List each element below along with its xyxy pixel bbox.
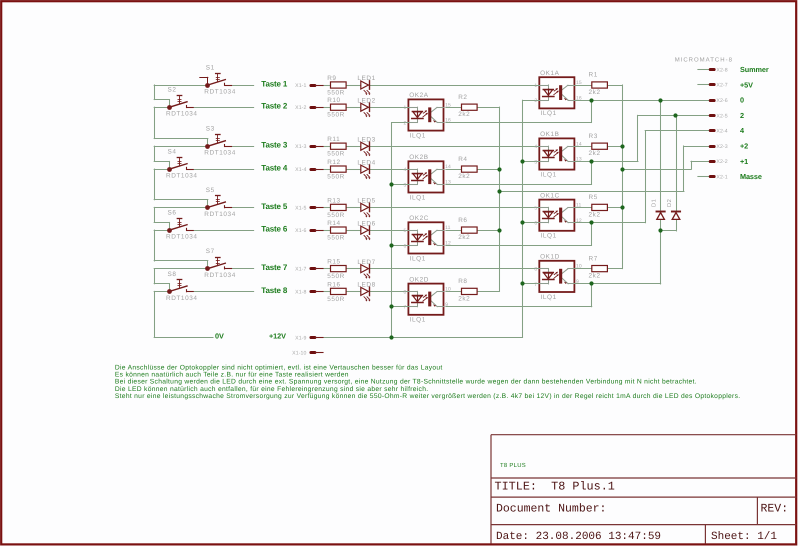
svg-text:R9: R9 [327, 75, 336, 82]
svg-text:16: 16 [576, 95, 582, 101]
svg-text:9: 9 [445, 302, 448, 308]
svg-text:LED5: LED5 [357, 198, 375, 205]
svg-text:2k2: 2k2 [458, 295, 470, 302]
svg-text:8: 8 [534, 267, 537, 273]
svg-text:ILQ1: ILQ1 [541, 233, 557, 240]
svg-text:X1-2: X1-2 [295, 105, 306, 111]
svg-text:8: 8 [404, 289, 407, 295]
svg-text:ILQ1: ILQ1 [541, 294, 557, 301]
svg-text:LED8: LED8 [357, 282, 375, 289]
svg-text:2k2: 2k2 [589, 150, 601, 157]
svg-text:Taste 6: Taste 6 [261, 225, 288, 234]
svg-text:OK2B: OK2B [409, 154, 428, 161]
svg-text:LED2: LED2 [357, 97, 375, 104]
svg-text:2: 2 [404, 120, 407, 126]
svg-text:550R: 550R [327, 212, 345, 219]
svg-text:R5: R5 [589, 194, 598, 201]
svg-text:R14: R14 [327, 220, 341, 227]
svg-text:RDT1034: RDT1034 [204, 211, 236, 218]
svg-text:S4: S4 [168, 149, 177, 156]
svg-text:1: 1 [404, 105, 407, 111]
svg-text:X2-8: X2-8 [716, 67, 727, 73]
svg-text:15: 15 [445, 102, 451, 108]
svg-text:13: 13 [576, 157, 582, 163]
svg-text:X2-1: X2-1 [716, 175, 727, 181]
svg-text:R13: R13 [327, 197, 341, 204]
svg-text:2k2: 2k2 [589, 89, 601, 96]
svg-text:X1-5: X1-5 [295, 205, 306, 211]
svg-text:OK2D: OK2D [409, 276, 429, 283]
svg-text:14: 14 [576, 141, 582, 147]
svg-text:X1-8: X1-8 [295, 289, 306, 295]
svg-text:550R: 550R [327, 112, 345, 119]
svg-text:3: 3 [534, 159, 537, 165]
svg-text:R12: R12 [327, 159, 341, 166]
svg-text:X2-2: X2-2 [716, 159, 727, 165]
svg-text:10: 10 [576, 264, 582, 270]
svg-text:ILQ1: ILQ1 [410, 255, 426, 262]
svg-text:11: 11 [576, 203, 582, 209]
svg-text:R16: R16 [327, 281, 341, 288]
svg-text:LED3: LED3 [357, 136, 375, 143]
svg-text:OK1D: OK1D [540, 254, 560, 261]
svg-text:Taste 7: Taste 7 [261, 263, 288, 272]
svg-text:2k2: 2k2 [458, 111, 470, 118]
svg-text:D2: D2 [666, 199, 673, 207]
svg-text:OK1A: OK1A [540, 70, 560, 77]
svg-text:Sheet: 1/1: Sheet: 1/1 [711, 531, 777, 543]
svg-text:Taste 2: Taste 2 [261, 102, 288, 111]
svg-text:S6: S6 [168, 210, 177, 217]
svg-text:Date: 23.08.2006 13:47:59: Date: 23.08.2006 13:47:59 [496, 531, 661, 543]
svg-text:RDT1034: RDT1034 [204, 88, 236, 95]
svg-text:S5: S5 [206, 187, 215, 194]
svg-text:R4: R4 [458, 156, 467, 163]
svg-text:Summer: Summer [740, 65, 769, 74]
svg-text:2k2: 2k2 [589, 211, 601, 218]
svg-text:OK1B: OK1B [540, 131, 559, 138]
svg-text:RDT1034: RDT1034 [204, 272, 236, 279]
svg-text:S2: S2 [168, 87, 177, 94]
svg-text:6: 6 [534, 221, 537, 227]
svg-text:2: 2 [740, 111, 744, 120]
svg-text:12: 12 [445, 241, 451, 247]
svg-text:550R: 550R [327, 296, 345, 303]
svg-text:X2-5: X2-5 [716, 113, 727, 119]
svg-text:13: 13 [445, 180, 451, 186]
svg-text:R3: R3 [589, 133, 598, 140]
svg-text:Taste 3: Taste 3 [261, 141, 288, 150]
svg-text:R11: R11 [327, 136, 340, 143]
svg-text:5: 5 [404, 228, 407, 234]
svg-text:D1: D1 [652, 199, 658, 207]
svg-text:X1-4: X1-4 [295, 167, 306, 173]
svg-text:X1-10: X1-10 [292, 351, 306, 357]
svg-text:4: 4 [404, 167, 407, 173]
svg-text:MICROMATCH-8: MICROMATCH-8 [675, 57, 733, 64]
svg-text:0V: 0V [215, 332, 224, 341]
svg-text:9: 9 [576, 279, 579, 285]
svg-text:R1: R1 [589, 72, 598, 79]
svg-text:RDT1034: RDT1034 [166, 173, 198, 180]
svg-text:Es können naatürlich auch Teil: Es können naatürlich auch Teile z.B. nur… [115, 372, 349, 379]
svg-text:Taste 4: Taste 4 [261, 164, 288, 173]
svg-text:LED6: LED6 [357, 220, 375, 227]
svg-text:550R: 550R [327, 89, 345, 96]
svg-text:ILQ1: ILQ1 [410, 317, 426, 324]
svg-text:TITLE: T8 Plus.1: TITLE: T8 Plus.1 [495, 479, 615, 493]
svg-text:7: 7 [534, 282, 537, 288]
svg-text:X2-6: X2-6 [716, 98, 727, 104]
svg-text:X2-7: X2-7 [716, 83, 727, 89]
svg-text:16: 16 [445, 118, 451, 124]
svg-text:R15: R15 [327, 259, 341, 266]
svg-text:Die Anschlüsse der Optokoppler: Die Anschlüsse der Optokoppler sind nich… [115, 364, 443, 371]
svg-text:6: 6 [404, 243, 407, 249]
svg-text:Taste 5: Taste 5 [261, 202, 288, 211]
svg-text:R10: R10 [327, 97, 341, 104]
svg-text:ILQ1: ILQ1 [541, 110, 557, 117]
svg-text:4: 4 [534, 144, 537, 150]
svg-text:Masse: Masse [740, 172, 762, 181]
svg-text:R2: R2 [458, 94, 467, 101]
svg-text:2k2: 2k2 [589, 273, 601, 280]
svg-text:X2-4: X2-4 [716, 129, 727, 135]
svg-text:1: 1 [534, 83, 537, 89]
svg-text:2k2: 2k2 [458, 234, 470, 241]
svg-text:X2-3: X2-3 [716, 144, 727, 150]
svg-text:550R: 550R [327, 151, 345, 158]
svg-text:RDT1034: RDT1034 [166, 111, 198, 118]
svg-text:LED4: LED4 [357, 159, 375, 166]
svg-text:ILQ1: ILQ1 [410, 132, 426, 139]
svg-text:OK2C: OK2C [409, 215, 429, 222]
svg-text:Die LED können natürlich auch: Die LED können natürlich auch entfallen,… [115, 386, 428, 393]
svg-text:Taste 8: Taste 8 [261, 286, 288, 295]
svg-text:Bei dieser Schaltung werden di: Bei dieser Schaltung werden die LED durc… [115, 379, 697, 386]
svg-text:550R: 550R [327, 273, 345, 280]
svg-text:R7: R7 [589, 255, 598, 262]
svg-text:2k2: 2k2 [458, 173, 470, 180]
svg-text:+1: +1 [740, 157, 748, 166]
svg-text:Taste 1: Taste 1 [261, 79, 288, 88]
svg-text:R8: R8 [458, 278, 467, 285]
svg-text:7: 7 [404, 305, 407, 311]
svg-text:R6: R6 [458, 217, 467, 224]
svg-text:3: 3 [404, 182, 407, 188]
svg-text:ILQ1: ILQ1 [410, 194, 426, 201]
svg-text:LED1: LED1 [357, 75, 375, 82]
svg-text:0: 0 [740, 96, 744, 105]
svg-text:X1-9: X1-9 [295, 335, 306, 341]
svg-text:+2: +2 [740, 142, 748, 151]
svg-text:S8: S8 [168, 271, 177, 278]
svg-text:LED7: LED7 [357, 259, 375, 266]
svg-text:550R: 550R [327, 235, 345, 242]
svg-text:X1-7: X1-7 [295, 267, 306, 273]
svg-text:Document Number:: Document Number: [496, 502, 606, 515]
svg-text:Steht nur eine leistungsschwac: Steht nur eine leistungsschwache Stromve… [115, 393, 741, 400]
svg-text:11: 11 [445, 225, 451, 231]
svg-text:REV:: REV: [761, 502, 789, 515]
svg-text:X1-1: X1-1 [295, 83, 306, 89]
svg-text:ILQ1: ILQ1 [541, 171, 557, 178]
svg-text:2: 2 [534, 98, 537, 104]
svg-text:14: 14 [445, 164, 451, 170]
svg-text:X1-6: X1-6 [295, 228, 306, 234]
svg-text:OK2A: OK2A [409, 92, 429, 99]
svg-text:10: 10 [445, 287, 451, 293]
svg-text:T8 PLUS: T8 PLUS [500, 462, 526, 469]
svg-text:+5V: +5V [740, 80, 753, 89]
svg-text:RDT1034: RDT1034 [166, 234, 198, 241]
svg-text:15: 15 [576, 80, 582, 86]
svg-text:S1: S1 [206, 65, 215, 72]
svg-text:X1-3: X1-3 [295, 144, 306, 150]
svg-text:5: 5 [534, 205, 537, 211]
svg-text:RDT1034: RDT1034 [204, 150, 236, 157]
svg-text:+12V: +12V [269, 332, 286, 341]
svg-text:550R: 550R [327, 174, 345, 181]
svg-text:S3: S3 [206, 126, 215, 133]
svg-text:S7: S7 [206, 248, 215, 255]
svg-text:12: 12 [576, 218, 582, 224]
svg-text:RDT1034: RDT1034 [166, 295, 198, 302]
svg-text:OK1C: OK1C [540, 192, 560, 199]
